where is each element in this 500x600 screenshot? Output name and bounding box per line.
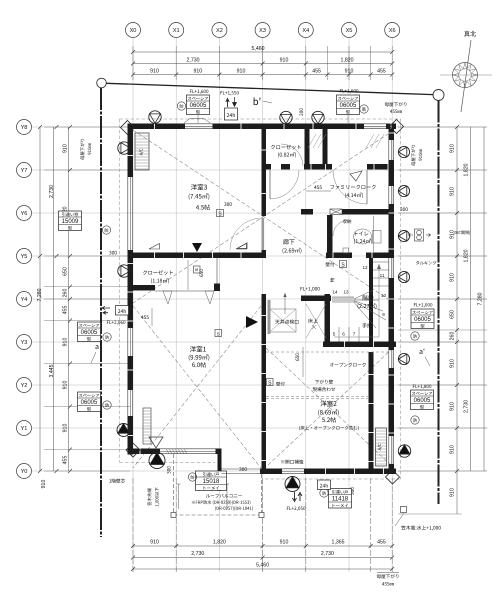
exterior wall right seg4: [389, 278, 395, 350]
svg-text:2,730: 2,730: [464, 400, 470, 413]
right dimension lines: [398, 125, 487, 514]
svg-text:910: 910: [450, 359, 456, 368]
window label 06005 right-mid: [411, 303, 434, 340]
svg-text:910: 910: [63, 381, 69, 390]
toilet fixture: [343, 216, 381, 253]
label kasagi height: [395, 507, 441, 531]
grid lines Y0-Y8 horizontal: [32, 127, 487, 471]
plan dim 650 bedroom2: [295, 347, 303, 377]
svg-text:11418: 11418: [332, 497, 349, 503]
svg-text:15009: 15009: [62, 219, 79, 225]
bottom dimension lines: [131, 478, 394, 573]
nook east wall: [325, 294, 331, 342]
label tatami nook: [308, 318, 318, 323]
door arc family closet: [333, 170, 367, 204]
exterior wall top seg3: [213, 124, 365, 130]
stair treads: [332, 262, 389, 342]
svg-text:8: 8: [371, 330, 374, 335]
svg-text:260: 260: [450, 332, 456, 341]
svg-text:06005: 06005: [414, 398, 431, 404]
svg-text:X4: X4: [302, 28, 309, 34]
svg-text:910: 910: [193, 69, 202, 75]
center wall lower (bedroom1 east): [262, 294, 267, 469]
label roof balcony: [192, 494, 253, 511]
wall joint slits: [128, 124, 395, 475]
nook north wall: [301, 296, 331, 302]
closet divider wall 2: [323, 129, 328, 164]
plan dim 300 right: [400, 207, 408, 211]
center wall upper (closet west): [262, 129, 267, 164]
bottom wall door 11418: [280, 469, 307, 475]
room label bedroom1: [189, 346, 210, 367]
bedroom3 door leaf (gray): [262, 218, 265, 250]
fix window trapezoid top: [184, 119, 210, 124]
svg-text:1,820: 1,820: [464, 163, 470, 176]
svg-text:Y3: Y3: [21, 340, 28, 346]
window label 06005 left-mid: [78, 322, 112, 363]
eaves overhang dashed outline: [120, 119, 401, 479]
svg-text:5,460: 5,460: [252, 46, 265, 52]
svg-text:910: 910: [150, 69, 159, 75]
FL+1000 leader arrow: [284, 293, 286, 314]
plan dim 300 balcony right: [350, 487, 354, 495]
laundry niche bedroom1 (hatched): [143, 408, 151, 444]
exterior wall left seg2: [128, 250, 134, 328]
ceiling access hatch bedroom1 (box with X): [270, 309, 297, 332]
corner diamond bottom-left: [126, 443, 140, 457]
balcony north thin lines: [222, 468, 261, 470]
svg-text:X5: X5: [346, 28, 353, 34]
right wall window 2: [389, 184, 395, 207]
ramp triangle corridor: [237, 243, 247, 249]
hanger mark closet2 left: [163, 291, 172, 304]
plan dim 300 balcony: [239, 467, 247, 471]
svg-text:910: 910: [450, 273, 456, 282]
label ceiling access: [275, 319, 298, 323]
svg-text:Y2: Y2: [21, 383, 28, 389]
stair center wall: [369, 258, 373, 342]
corridor north wall seg2: [281, 164, 290, 170]
exterior wall top seg4: [386, 124, 396, 130]
room label bedroom2: [299, 401, 358, 431]
corridor south wall seg4: [366, 253, 390, 259]
vent triangle bedroom3 right: [236, 244, 247, 250]
svg-text:13: 13: [343, 290, 349, 295]
svg-text:2,730: 2,730: [321, 551, 334, 557]
left dimension lines: [38, 125, 130, 473]
exterior wall right seg2: [389, 160, 395, 186]
corridor north wall seg3: [304, 164, 332, 170]
24h vent box bottom: [287, 480, 331, 511]
vent symbol top wall 2: [280, 111, 292, 123]
svg-text:06005: 06005: [81, 330, 98, 336]
svg-text:910: 910: [450, 445, 456, 454]
svg-text:06005: 06005: [81, 400, 98, 406]
corridor south wall seg3: [326, 253, 352, 259]
svg-text:910: 910: [280, 58, 289, 64]
svg-text:Y0: Y0: [21, 469, 28, 475]
svg-text:14: 14: [332, 290, 338, 295]
axis markers Y8-Y0: [17, 120, 32, 479]
label 1F wall center: [109, 479, 125, 483]
svg-text:910: 910: [450, 144, 456, 153]
svg-text:12: 12: [362, 265, 368, 270]
section marker b (filled triangle): [192, 243, 202, 252]
boundary corner circle top-right: [433, 90, 444, 101]
svg-text:7,280: 7,280: [478, 292, 484, 305]
switch box S closet2 rotated: [194, 266, 201, 273]
svg-text:455: 455: [312, 69, 321, 75]
left wall window 15009: [128, 175, 134, 253]
svg-text:Y7: Y7: [21, 168, 28, 174]
balcony side wall: [218, 449, 222, 492]
exterior wall right seg5: [389, 368, 395, 436]
stair number labels: [332, 265, 386, 337]
label opening reinforcement: [281, 460, 303, 464]
boundary line top: [106, 83, 433, 94]
svg-text:S: S: [194, 268, 200, 271]
svg-text:2,730: 2,730: [191, 551, 204, 557]
24h vent box left: [102, 306, 129, 325]
svg-text:Y8: Y8: [21, 125, 28, 131]
svg-text:2,730: 2,730: [49, 185, 55, 198]
window label 06005 left-low: [78, 392, 112, 412]
vent symbol right wall 6: [398, 445, 410, 457]
svg-text:Y5: Y5: [21, 254, 28, 260]
svg-text:455: 455: [63, 456, 69, 465]
closet hatch marks top-right rooms: [308, 134, 384, 148]
exterior wall bottom-left seg: [128, 449, 160, 455]
corridor north wall seg4: [367, 164, 394, 170]
svg-text:9: 9: [382, 312, 385, 317]
roof slope dashed diagonals: [133, 130, 394, 468]
svg-text:Y4: Y4: [21, 297, 28, 303]
room label toilet: [354, 231, 372, 244]
room label stair: [358, 295, 377, 309]
svg-text:910: 910: [237, 69, 246, 75]
closet divider wall 1: [305, 129, 310, 164]
svg-text:6: 6: [342, 332, 345, 337]
svg-text:910: 910: [345, 69, 354, 75]
room label bedroom3: [189, 184, 210, 210]
svg-text:Y6: Y6: [21, 211, 28, 217]
vent symbol left wall 3: [117, 424, 130, 437]
label SIC open-close: [409, 229, 471, 241]
svg-text:910: 910: [280, 540, 289, 546]
corner diamond top-left: [121, 121, 135, 135]
label roof lowered left rotated: [80, 139, 91, 160]
svg-text:1,820: 1,820: [341, 58, 354, 64]
room label family cloak: [330, 185, 375, 198]
svg-text:1,820: 1,820: [213, 540, 226, 546]
svg-text:910: 910: [150, 540, 159, 546]
svg-text:260: 260: [63, 289, 69, 298]
svg-text:11: 11: [380, 273, 385, 278]
exterior wall bottom seg1: [260, 469, 282, 475]
bedroom3 door arc: [230, 218, 262, 250]
corridor north wall seg1: [262, 164, 272, 170]
window label 15009 left: [59, 211, 111, 234]
closet2 east jamb: [214, 284, 220, 292]
vent triangle bedroom3 left: [149, 244, 160, 250]
center wall block: [262, 250, 267, 258]
bedroom2 east wall: [369, 352, 374, 469]
top dimension labels: [150, 46, 386, 75]
svg-text:910: 910: [41, 480, 47, 489]
boundary line right: [438, 101, 440, 505]
svg-text:455: 455: [63, 306, 69, 315]
svg-text:X1: X1: [173, 28, 180, 34]
A/C niche room3 (hatched): [135, 133, 149, 170]
right wall window 4: [389, 348, 395, 371]
window label 11418 bottom-right: [320, 489, 352, 509]
svg-text:06005: 06005: [190, 103, 207, 109]
A.C. unit bedroom2 (hatched): [376, 428, 387, 466]
plan dim 200 top: [299, 108, 303, 116]
corner diamond top-right: [390, 120, 404, 134]
top wall window 06005: [183, 124, 216, 130]
label open cloak: [330, 363, 366, 367]
specbox leaders top: [197, 115, 199, 124]
svg-text:650: 650: [63, 267, 69, 276]
left wall window 06005 b: [128, 388, 134, 419]
stair path line: [334, 264, 379, 337]
exterior wall bottom seg2: [304, 469, 396, 475]
svg-text:X6: X6: [389, 28, 396, 34]
top dimension lines: [131, 46, 394, 80]
window box in family closet south wall: [330, 209, 342, 215]
svg-text:1,365: 1,365: [332, 540, 345, 546]
svg-text:S: S: [217, 331, 220, 337]
label wall-mount S bedroom2: [267, 379, 285, 387]
exterior wall right seg1: [389, 124, 395, 141]
dropped wall dashed lines: [266, 396, 368, 398]
svg-text:X0: X0: [130, 28, 137, 34]
svg-text:06005: 06005: [340, 103, 357, 109]
exterior wall top seg1: [128, 124, 185, 130]
svg-text:5: 5: [333, 332, 336, 337]
svg-text:910: 910: [450, 488, 456, 497]
vent symbol right wall 1: [398, 146, 409, 157]
sliding panel stripes bottom window: [166, 449, 187, 455]
family closet south wall seg1: [301, 209, 313, 215]
svg-text:910: 910: [450, 187, 456, 196]
open cloak dashed line: [266, 351, 390, 353]
ceiling access pointer triangle: [246, 316, 258, 328]
svg-text:5,460: 5,460: [256, 563, 269, 569]
vent symbol bottom wall 1: [149, 453, 165, 469]
svg-text:7,280: 7,280: [37, 288, 43, 301]
vent symbol top wall 3: [312, 111, 324, 123]
svg-text:Y1: Y1: [21, 426, 28, 432]
vent symbol right wall 2: [398, 185, 409, 196]
label kasagi tip rotated: [147, 487, 159, 506]
plan dim 650 bedroom3: [188, 260, 203, 290]
exterior wall right seg6: [389, 464, 395, 474]
label FL+1000 stair: [301, 287, 320, 291]
door arc toilet: [333, 220, 349, 236]
24h vent box top: [220, 91, 238, 120]
door arc closet 0.82 upper: [281, 144, 303, 166]
plan dim 455 bedroom1: [141, 308, 152, 326]
svg-text:910: 910: [450, 402, 456, 411]
window label 06005 right-low: [411, 349, 434, 425]
plan dim 455 family cloak: [306, 185, 331, 191]
room label storage: [343, 219, 351, 223]
balcony outline dashed: [171, 454, 264, 518]
label wall-mount S corridor: [326, 261, 347, 269]
closet2 south wall: [128, 285, 155, 291]
left dimension labels: [37, 144, 69, 488]
window label 06005 top-left: [177, 90, 209, 115]
label b-prime section: [254, 97, 272, 105]
svg-text:2,730: 2,730: [187, 58, 200, 64]
exterior wall left seg3: [128, 356, 134, 390]
open triangle marker bedroom1: [149, 437, 163, 448]
nook sliding door track gray: [268, 300, 271, 334]
room label closet 0.82: [271, 145, 301, 158]
label roof lowered top-right: [385, 102, 407, 113]
plan dim 300 balcony left: [167, 466, 171, 474]
svg-text:15018: 15018: [203, 479, 220, 485]
label roof lowered bottom-right: [377, 573, 399, 586]
axis markers X0-X6: [126, 23, 400, 38]
vent symbol top wall 1: [149, 111, 161, 123]
stair south wall: [323, 342, 396, 348]
switch box S bedroom1: [215, 330, 222, 337]
svg-text:06005: 06005: [414, 317, 431, 323]
right wall window 3: [389, 256, 395, 281]
nook X cross: [306, 304, 326, 338]
plan dim 300 corridor: [224, 202, 232, 206]
svg-text:910: 910: [63, 424, 69, 433]
closet2 south thin line: [155, 290, 214, 292]
room label corridor: [283, 239, 302, 254]
vent symbol left wall 1: [118, 142, 130, 154]
grid lines X0-X6 vertical: [133, 38, 392, 572]
plan dim 300 left: [109, 251, 117, 255]
svg-text:910: 910: [63, 338, 69, 347]
center wall corridor upper: [262, 168, 267, 216]
bottom dimension labels: [150, 540, 386, 569]
bottom sliding door 15018: [158, 449, 219, 455]
boundary corner circle top-left: [97, 78, 107, 88]
svg-text:1,820: 1,820: [464, 249, 470, 262]
vent symbol right wall 3: [398, 230, 409, 241]
room label closet 1.18: [143, 270, 173, 283]
svg-text:X2: X2: [216, 28, 223, 34]
label roof lowered right rotated: [411, 145, 422, 166]
corner diamond bottom-right: [386, 470, 400, 484]
svg-text:455: 455: [377, 540, 386, 546]
label dropped wall: [313, 380, 335, 392]
label handrail: [362, 323, 371, 328]
exterior wall left seg4: [128, 416, 134, 455]
svg-text:10: 10: [381, 293, 387, 298]
door arc closet 0.82 lower: [270, 170, 299, 199]
svg-text:X3: X3: [259, 28, 266, 34]
left wall window 06005 a: [128, 326, 134, 359]
open triangle marker family closet: [350, 171, 362, 181]
svg-text:910: 910: [63, 144, 69, 153]
label rotated mono stair: [330, 278, 334, 282]
toilet west wall: [327, 215, 333, 258]
exterior wall left seg1: [128, 124, 134, 178]
corridor south wall seg1: [133, 253, 266, 259]
right wall window 5: [389, 434, 395, 467]
label tarukin right: [416, 261, 436, 265]
window label 15018 bottom: [188, 471, 226, 491]
svg-text:455: 455: [377, 69, 386, 75]
vent symbol bottom wall 2: [285, 477, 300, 492]
right dimension labels: [450, 144, 484, 497]
window label 06005 top-right: [337, 89, 369, 114]
svg-text:650: 650: [450, 310, 456, 319]
svg-text:3,445: 3,445: [49, 364, 55, 377]
boundary line left: [100, 88, 102, 537]
stair handrail gray band: [332, 298, 354, 303]
north arrow compass: [440, 31, 492, 112]
hanger mark closet2 right: [205, 291, 214, 304]
switch box S bedroom3: [217, 210, 224, 217]
exterior wall right seg3: [389, 204, 395, 258]
vent symbol right wall 5: [398, 353, 409, 364]
vent symbol right wall 4: [398, 271, 409, 282]
top wall window right: [362, 124, 389, 130]
vent symbol left wall 2: [118, 265, 130, 277]
family closet south wall seg2: [342, 209, 390, 215]
right wall window 1: [389, 138, 395, 163]
svg-text:7: 7: [353, 332, 356, 337]
